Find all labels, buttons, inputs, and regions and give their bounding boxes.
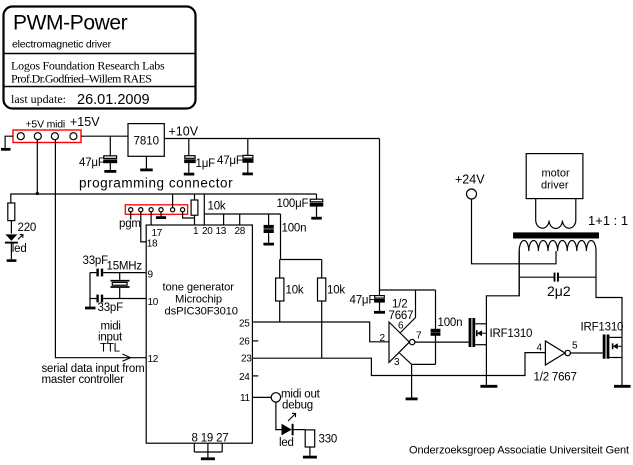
ground at IC bottom xyxy=(201,457,215,460)
svg-text:15MHz: 15MHz xyxy=(107,261,143,273)
svg-text:2: 2 xyxy=(380,333,386,344)
svg-text:20: 20 xyxy=(202,226,213,237)
ground at D1 xyxy=(7,259,17,262)
wire pin10 xyxy=(103,298,146,300)
wire pin11 to midi out xyxy=(252,396,271,398)
terminal +24V xyxy=(467,189,477,199)
op-amp U3B 7667 inverter xyxy=(545,341,570,365)
ground at C5 xyxy=(311,217,322,220)
svg-text:13: 13 xyxy=(216,226,227,237)
svg-text:10k: 10k xyxy=(208,201,226,213)
capacitor C2 1uF xyxy=(185,156,195,173)
wire Q1 drain to transformer xyxy=(486,251,519,324)
wire 7667 pin3 gnd path xyxy=(400,353,436,398)
svg-text:last update:: last update: xyxy=(11,92,66,106)
svg-text:7810: 7810 xyxy=(134,136,160,148)
svg-text:led: led xyxy=(279,437,294,449)
svg-text:220: 220 xyxy=(18,222,37,234)
capacitor C3 47uF xyxy=(243,155,253,172)
svg-text:33pF: 33pF xyxy=(83,255,109,267)
capacitor C1 47uF xyxy=(104,156,117,170)
svg-text:28: 28 xyxy=(235,226,246,237)
svg-text:2μ2: 2μ2 xyxy=(547,283,571,299)
junction rail2 pin2 xyxy=(36,192,39,195)
svg-text:Onderzoeksgroep Associatie Uni: Onderzoeksgroep Associatie Universiteit … xyxy=(409,445,629,457)
svg-text:+24V: +24V xyxy=(455,173,485,187)
svg-text:12: 12 xyxy=(148,354,159,365)
ground at C8 xyxy=(374,311,385,314)
svg-text:Logos Foundation Research Labs: Logos Foundation Research Labs xyxy=(11,59,165,73)
ground at 7667 pin3 xyxy=(406,397,418,400)
resistor R4 10k pullup pin23 xyxy=(318,260,326,359)
ground at crystal xyxy=(85,299,96,309)
capacitor C5 100uF xyxy=(310,199,322,217)
svg-text:9: 9 xyxy=(148,270,154,281)
terminal midi out debug xyxy=(271,393,280,402)
svg-text:100n: 100n xyxy=(282,223,307,235)
wire J1 pin3 down to pin12 row xyxy=(55,140,146,358)
svg-text:24: 24 xyxy=(239,372,250,383)
wire inverter A output to gate xyxy=(415,341,469,343)
wire +5V rail2 xyxy=(11,194,317,203)
svg-text:1μF: 1μF xyxy=(196,158,216,170)
wire pin13 stem xyxy=(223,214,225,225)
svg-text:PWM-Power: PWM-Power xyxy=(13,12,128,35)
svg-text:47μF: 47μF xyxy=(79,157,105,169)
ground at C4 xyxy=(263,243,274,246)
svg-text:18: 18 xyxy=(147,239,158,250)
wire +10V drop to 7667 supply xyxy=(380,139,436,291)
wire VDD pin20 stem xyxy=(203,194,205,225)
svg-text:100n: 100n xyxy=(438,317,463,329)
svg-text:master controller: master controller xyxy=(42,374,125,386)
svg-text:8 19 27: 8 19 27 xyxy=(192,433,229,445)
wire rail2 corner to 100uF xyxy=(316,194,318,199)
svg-text:Prof.Dr.Godfried–Willem RAES: Prof.Dr.Godfried–Willem RAES xyxy=(11,72,151,86)
svg-text:+15V: +15V xyxy=(70,115,100,129)
ground at Q2 source xyxy=(614,385,631,388)
svg-text:motor: motor xyxy=(542,168,570,180)
wire 47uF C3 drop xyxy=(247,139,249,156)
capacitor C9 100n xyxy=(431,290,440,364)
crystal X1 15MHz xyxy=(111,273,130,299)
wire midi out to led xyxy=(276,402,282,430)
wire J2 pin6 to R2 bottom xyxy=(183,212,195,218)
capacitor C10 2u2 xyxy=(519,273,596,282)
svg-text:17: 17 xyxy=(152,228,163,239)
wire J2 pin4 ground stem xyxy=(160,212,162,217)
capacitor C6 33pF top xyxy=(90,269,103,277)
wire J1 pin4 to 7810 input xyxy=(81,135,128,137)
transformer primary winding xyxy=(536,199,576,229)
arrow on pin12 wire xyxy=(123,354,131,361)
wire J2 pin2 to IC pin18 xyxy=(141,212,146,242)
svg-text:1/2 7667: 1/2 7667 xyxy=(534,372,577,384)
wire pin9 xyxy=(103,272,146,274)
wire pin24 stub xyxy=(252,375,258,377)
op-amp U3A 7667 inverter xyxy=(389,322,415,362)
ground at C2 xyxy=(184,173,195,176)
svg-text:33pF: 33pF xyxy=(98,302,124,314)
svg-text:10k: 10k xyxy=(286,285,304,297)
svg-text:dsPIC30F3010: dsPIC30F3010 xyxy=(165,306,238,318)
svg-text:driver: driver xyxy=(541,180,569,192)
label 1/2 7667 inverter A xyxy=(389,299,414,323)
motor driver box xyxy=(526,154,583,199)
transformer core xyxy=(513,232,599,238)
transistor Q1 IRF1310 xyxy=(469,318,487,347)
svg-text:26.01.2009: 26.01.2009 xyxy=(77,92,150,108)
svg-text:23: 23 xyxy=(241,354,252,365)
wire 100n C4 stem xyxy=(268,214,270,226)
svg-text:1: 1 xyxy=(193,226,199,237)
svg-text:IRF1310: IRF1310 xyxy=(490,328,533,340)
wire inverter B output to Q2 gate xyxy=(570,352,602,354)
wire +24V to center tap xyxy=(472,199,557,264)
ground at 7810 xyxy=(140,156,153,170)
svg-text:5: 5 xyxy=(572,341,578,352)
svg-text:TTL: TTL xyxy=(100,343,121,355)
wire secondary right leg xyxy=(596,251,622,337)
led D1 xyxy=(5,234,23,259)
wire Q2 source to ground xyxy=(621,337,623,385)
svg-text:10k: 10k xyxy=(327,285,345,297)
svg-text:1+1 : 1: 1+1 : 1 xyxy=(588,213,628,228)
led D2 xyxy=(282,413,296,435)
wire secondary left leg xyxy=(518,251,520,296)
resistor R5 330 xyxy=(305,430,315,456)
ground at J1 pin1 xyxy=(1,148,11,151)
svg-text:47μF: 47μF xyxy=(217,155,243,167)
wire J1 pin1 to ground xyxy=(5,136,13,148)
ground at C3 xyxy=(242,172,253,175)
capacitor C7 33pF bottom xyxy=(90,295,103,303)
svg-text:Microchip: Microchip xyxy=(175,294,222,306)
transformer secondary winding xyxy=(519,240,596,251)
svg-text:1/2: 1/2 xyxy=(392,299,407,311)
wire bus drop to pullups xyxy=(280,214,282,260)
svg-text:100μF: 100μF xyxy=(277,198,309,210)
ground at R5 xyxy=(303,456,317,459)
resistor R3 10k pullup pin25 xyxy=(276,260,284,323)
wire pin25 to inverter A input xyxy=(252,322,389,342)
resistor R1 220 xyxy=(8,203,15,234)
wire pin26 stub xyxy=(252,340,258,342)
ground at Q1 source xyxy=(480,385,497,388)
regulator U2 7810 xyxy=(128,124,164,157)
svg-text:pgm: pgm xyxy=(119,218,141,230)
svg-text:11: 11 xyxy=(240,393,251,404)
svg-text:4: 4 xyxy=(537,343,543,354)
connector J1 midi power xyxy=(13,130,81,143)
wire J2 pin3 to IC pin17 xyxy=(150,212,152,225)
svg-text:330: 330 xyxy=(319,434,338,446)
capacitor C8 47uF 7667 supply xyxy=(375,290,385,311)
wire +10V rail xyxy=(164,138,379,140)
svg-text:25: 25 xyxy=(239,319,250,330)
transistor Q2 IRF1310 xyxy=(603,335,622,359)
svg-text:3: 3 xyxy=(394,357,400,368)
ground at J2 xyxy=(156,216,166,219)
svg-text:6: 6 xyxy=(398,321,404,332)
svg-text:+5V midi: +5V midi xyxy=(26,119,66,131)
wire VDD bus y214 xyxy=(204,213,280,215)
wire Q1 source to ground xyxy=(485,345,487,385)
ground at C1 xyxy=(104,170,116,173)
capacitor C4 100n xyxy=(264,226,273,243)
resistor R2 10k MCLR pullup xyxy=(191,194,198,225)
svg-text:10: 10 xyxy=(148,297,159,308)
label midi input TTL xyxy=(98,321,123,355)
crystal circuit: left rail wire xyxy=(89,273,91,299)
svg-text:26: 26 xyxy=(239,337,250,348)
wire 7667 Vdd pin6 xyxy=(401,290,416,333)
svg-text:led: led xyxy=(12,243,27,255)
svg-text:47μF: 47μF xyxy=(350,295,376,307)
title block frame xyxy=(4,7,196,109)
wire J2 pin1 stub xyxy=(130,212,132,220)
wire J2 pin5 up to rail2 xyxy=(172,194,174,208)
connector J2 pgm xyxy=(125,205,187,215)
wire 1uF drop xyxy=(188,139,190,156)
svg-text:debug: debug xyxy=(282,400,313,412)
wire pin28 stem xyxy=(239,214,241,225)
svg-text:electromagnetic driver: electromagnetic driver xyxy=(12,39,112,51)
svg-text:+10V: +10V xyxy=(169,125,199,139)
IC U1 dsPIC30F3010 xyxy=(146,225,252,443)
wire pullup top link xyxy=(280,259,322,261)
svg-text:tone generator: tone generator xyxy=(163,282,235,294)
svg-text:IRF1310: IRF1310 xyxy=(581,322,624,334)
IC bottom ground pins 8 19 27 xyxy=(194,443,222,457)
wire 47uF C1 drop xyxy=(109,136,111,156)
svg-text:programming connector: programming connector xyxy=(79,176,233,191)
svg-text:7: 7 xyxy=(416,331,422,342)
wire pin23 to inverter B input xyxy=(252,353,545,376)
wire J1 pin2 down to rail2 xyxy=(36,140,38,194)
wire led to R5 xyxy=(294,429,306,431)
